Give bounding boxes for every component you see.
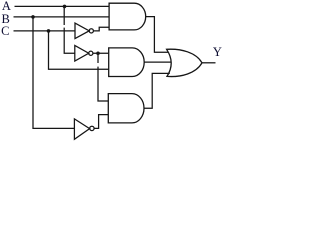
wire U1 output jog up to AND1 input 3 xyxy=(93,27,109,31)
wire C branch down to AND2 input 2 xyxy=(49,31,109,69)
wire A branch down to inverter U2 input (hop gap at y25-27.6) xyxy=(63,6,65,25)
wire U2 output branch down to AND3 input 1 (hop gap at y63-66.6) xyxy=(97,53,99,63)
inverter U2 (NOT A) xyxy=(75,46,89,62)
wire AND3 output up to OR input 3 xyxy=(144,73,170,108)
OR gate G4 xyxy=(167,49,202,76)
junction dot on U2 output xyxy=(96,51,100,55)
junction dot on C xyxy=(47,29,51,33)
wire C horizontal to inverter U1 input xyxy=(14,30,76,32)
svg-text:C: C xyxy=(1,24,9,38)
wire AND2 output to OR input 2 xyxy=(144,61,171,63)
wire A horizontal to AND1 input 1 xyxy=(15,5,110,7)
inverter U1 (NOT C) xyxy=(75,23,89,38)
wire AND1 output down to OR input 1 xyxy=(146,17,169,53)
junction dot on A xyxy=(63,5,67,9)
wire U2 output to AND2 input 1 xyxy=(93,52,109,54)
wire B branch down to inverter U3 input xyxy=(33,17,74,128)
junction dot on B xyxy=(31,15,35,19)
wire OR output to Y xyxy=(202,62,216,64)
AND gate G1 xyxy=(109,3,146,30)
AND gate G3 xyxy=(108,94,144,123)
wire U3 output jog up to AND3 input 2 xyxy=(94,115,108,129)
inverter U3 (NOT B) xyxy=(74,119,89,139)
wire B horizontal to AND1 input 2 xyxy=(14,16,110,18)
svg-text:Y: Y xyxy=(213,45,222,59)
AND gate G2 xyxy=(109,48,145,77)
